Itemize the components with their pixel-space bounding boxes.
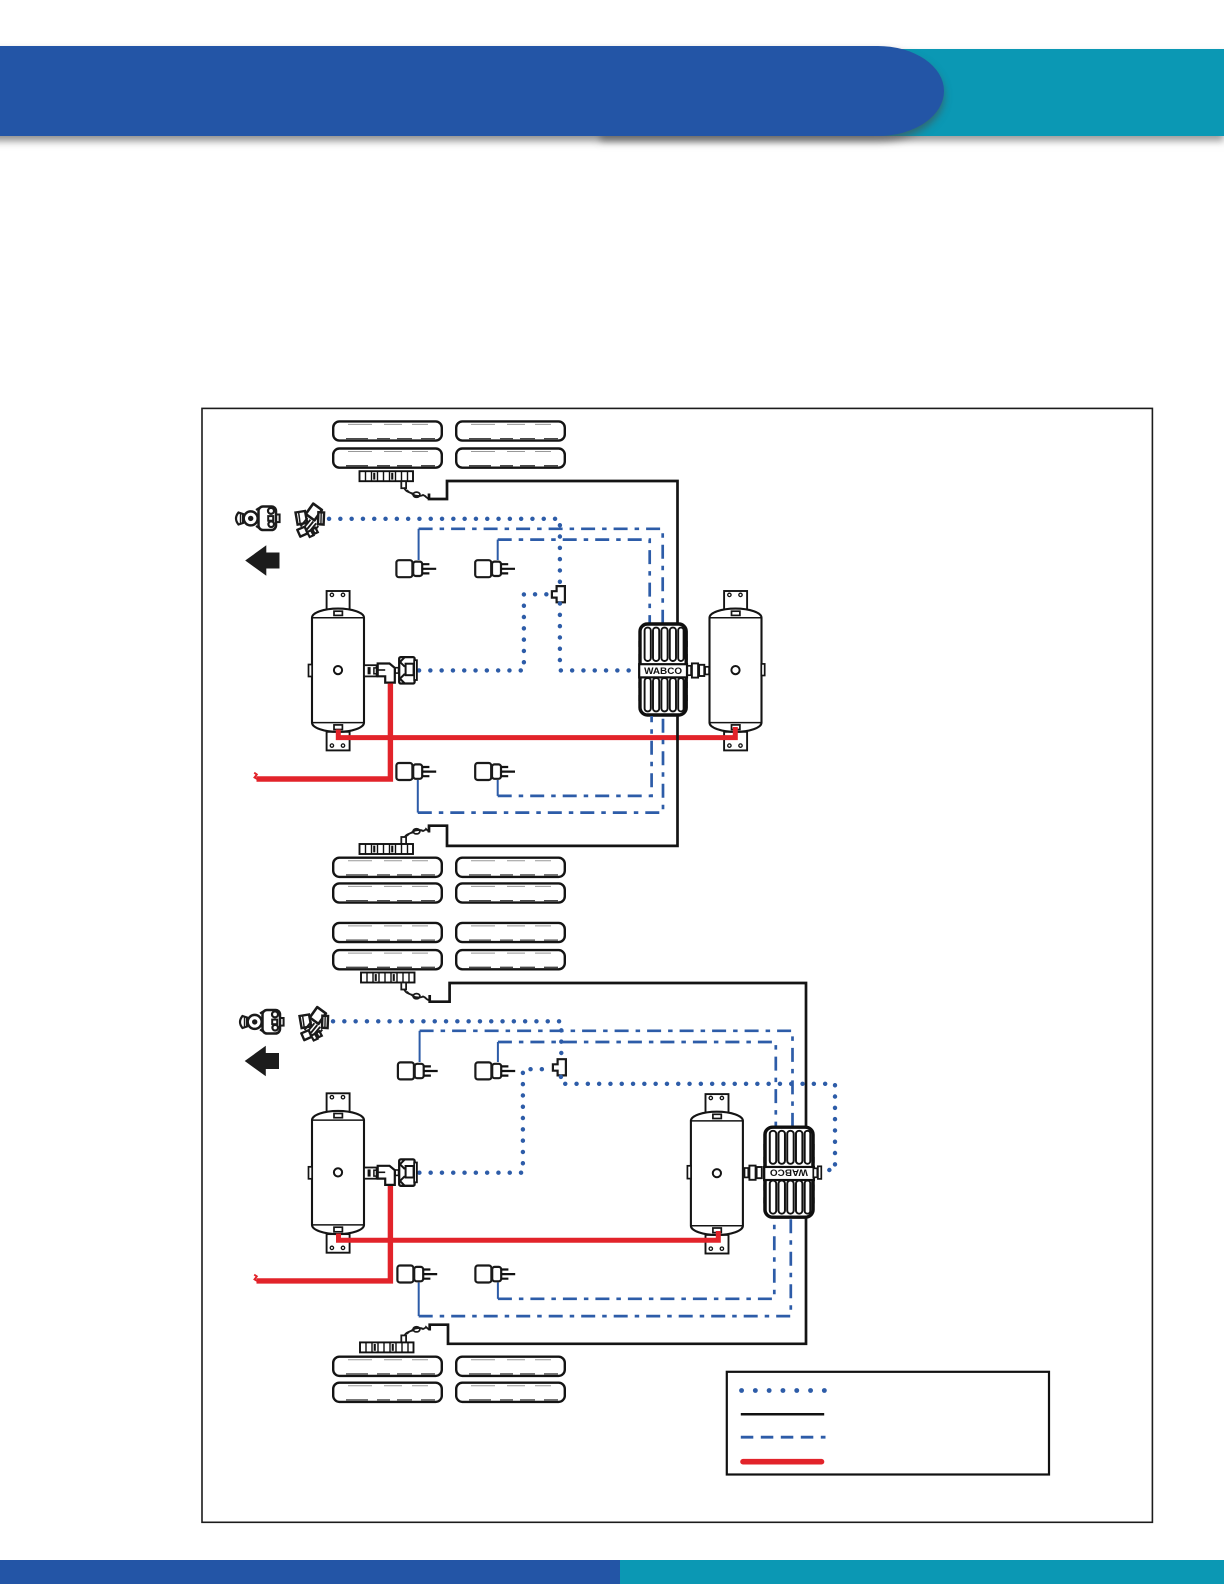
fitting F8	[475, 1266, 515, 1283]
sensor stub axle 4	[401, 1335, 406, 1342]
reservoir right 2 side tab	[687, 1166, 691, 1179]
red supply hook 1	[254, 773, 258, 780]
dash-dot hose F3 to ECU bottom	[418, 716, 663, 813]
ABS sensor block axle 2	[360, 844, 414, 854]
tire RF inner 2	[456, 950, 565, 969]
ABS sensor block axle 4	[360, 1342, 414, 1352]
reservoir left 2	[312, 1093, 364, 1252]
header teal band	[600, 49, 1224, 136]
tire RR outer 2	[456, 1357, 565, 1376]
tire LR outer 2	[333, 1357, 442, 1376]
red supply hook 2	[254, 1275, 258, 1282]
reservoir left 2 side tab	[309, 1167, 313, 1179]
blue stub F8	[497, 1283, 499, 1299]
reservoir right 2	[691, 1094, 743, 1253]
tire RR inner 1	[456, 883, 565, 902]
tire RR outer 1	[456, 858, 565, 877]
reservoir left 1 side tab	[309, 665, 313, 677]
svg-text:WABCO: WABCO	[644, 666, 682, 676]
gladhand emergency	[236, 507, 280, 531]
legend solid sample	[741, 1413, 824, 1416]
dash-dot hose F1 to ECU top	[419, 529, 663, 623]
sensor wire axle 4 to ECU	[430, 1218, 806, 1344]
tire RF outer	[456, 421, 565, 440]
diagram border frame	[202, 408, 1152, 1522]
legend dotted sample	[742, 1388, 827, 1393]
fitting F6	[475, 1062, 515, 1079]
reservoir right 1	[710, 591, 762, 750]
sensor wire axle 3 to ECU	[430, 983, 806, 1126]
blue stub F1	[418, 529, 420, 560]
reservoir left 1	[312, 591, 364, 750]
fitting F7	[397, 1266, 437, 1283]
dash-dot hose F8 to ECU2 bottom	[498, 1218, 774, 1299]
drain/supply valve assembly 2	[364, 1159, 417, 1185]
blue stub F7	[418, 1283, 420, 1317]
header blue pill	[0, 46, 944, 136]
sensor coiled cable axle 3	[404, 989, 429, 1000]
footer teal bar	[620, 1560, 1224, 1584]
tire RF outer 2	[456, 923, 565, 942]
tee fitting T1	[552, 586, 565, 602]
sensor coiled cable axle 2	[404, 829, 429, 839]
blue stub F4	[497, 780, 499, 796]
blue dotted: tee to ECU 2	[561, 1077, 835, 1170]
sensor stub axle 2	[401, 837, 406, 844]
gladhand service 2	[300, 1007, 329, 1040]
dash-dot hose F5 to ECU top 2	[420, 1031, 793, 1126]
blue stub F5	[419, 1031, 421, 1062]
tire LR inner 1	[333, 883, 442, 902]
fitting F3	[396, 763, 436, 780]
ABS sensor block axle 3	[361, 973, 415, 983]
tire LR outer 1	[333, 858, 442, 877]
red emergency line between reservoirs 1	[338, 727, 735, 738]
blue stub F3	[417, 780, 419, 813]
gladhand emergency 2	[240, 1010, 284, 1034]
fitting F4	[475, 763, 515, 780]
blue dotted: reservoir valve to tee 2	[419, 1069, 551, 1173]
red supply line 2	[257, 1186, 391, 1281]
legend red sample	[743, 1459, 822, 1465]
svg-text:WABCO: WABCO	[770, 1168, 808, 1178]
direction of travel arrow 2	[245, 1046, 279, 1077]
dash-dot hose F2 to ECU top	[498, 540, 650, 623]
sensor coiled cable axle 1	[404, 488, 429, 499]
ABS sensor block axle 1	[360, 471, 414, 481]
ECU2 right port fitting	[813, 1166, 821, 1179]
ABS modulator valve ECU 2 (WABCO)	[763, 1127, 814, 1217]
blue dotted: tee to ECU	[560, 604, 635, 671]
red supply line 1	[257, 684, 391, 780]
fitting F5	[398, 1062, 438, 1079]
tire LF inner	[333, 449, 442, 468]
ABS modulator valve ECU 1 (WABCO)	[638, 624, 687, 715]
gladhand service	[296, 504, 325, 537]
tire LF inner 2	[333, 950, 442, 969]
sensor stub axle 1	[401, 481, 406, 488]
tire RF inner	[456, 449, 565, 468]
sensor stub axle 3	[401, 983, 406, 990]
fitting ECU1 to reservoir	[687, 663, 709, 677]
blue stub F6	[497, 1042, 499, 1062]
red emergency line between reservoirs 2	[339, 1231, 719, 1240]
fitting F1	[396, 560, 436, 577]
reservoir right 1 side tab	[761, 664, 764, 676]
dash-dot hose F7 to ECU2 bottom	[419, 1218, 791, 1316]
tire LR inner 2	[333, 1383, 442, 1402]
dash-dot hose F4 to ECU bottom	[498, 716, 652, 796]
tire RR inner 2	[456, 1383, 565, 1402]
fitting F2	[475, 560, 515, 577]
tire LF outer 2	[333, 923, 442, 942]
blue dotted: reservoir valve to tee	[419, 594, 551, 670]
drain/supply valve assembly 1	[364, 657, 417, 683]
direction of travel arrow 1	[245, 545, 279, 576]
sensor wire axle 2 to ECU	[429, 716, 678, 846]
blue dotted control line: gladhand to tee	[329, 519, 560, 586]
blue dotted control line: gladhand to tee 2	[333, 1021, 561, 1058]
tire LF outer	[333, 421, 442, 440]
footer blue bar	[0, 1560, 620, 1584]
legend dashed sample	[741, 1436, 826, 1439]
tee fitting T2	[553, 1059, 566, 1075]
blue stub F2	[497, 540, 499, 560]
dash-dot hose F6 to ECU top 2	[498, 1042, 776, 1126]
sensor wire axle 1 to ECU	[429, 481, 678, 623]
legend box	[727, 1372, 1049, 1475]
sensor coiled cable axle 4	[404, 1327, 429, 1337]
fitting reservoir to ECU2	[745, 1166, 762, 1180]
